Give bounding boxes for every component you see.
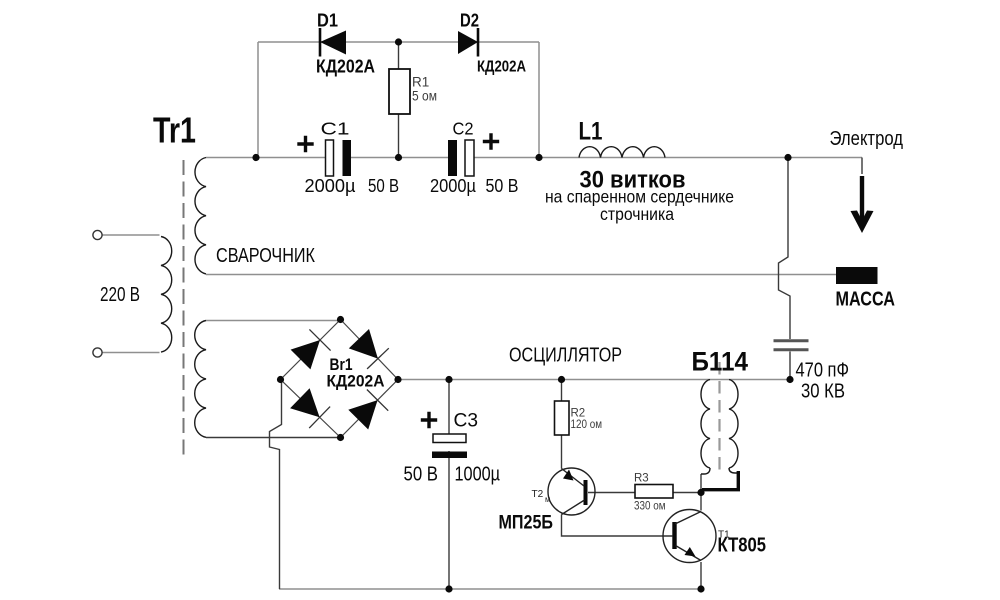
- svg-text:Электрод: Электрод: [830, 128, 904, 150]
- svg-text:C1: C1: [321, 119, 350, 139]
- svg-text:Т2: Т2: [532, 489, 544, 500]
- svg-text:50 В: 50 В: [368, 175, 399, 196]
- svg-text:R2: R2: [571, 408, 586, 420]
- svg-text:МАССА: МАССА: [836, 289, 896, 311]
- svg-text:C3: C3: [454, 410, 479, 432]
- svg-text:R3: R3: [634, 473, 649, 485]
- svg-text:D2: D2: [460, 10, 479, 31]
- svg-text:50 В: 50 В: [404, 464, 439, 486]
- svg-text:1000µ: 1000µ: [455, 464, 501, 486]
- svg-text:2000µ: 2000µ: [305, 175, 356, 196]
- svg-text:Б114: Б114: [692, 347, 749, 377]
- svg-text:СВАРОЧНИК: СВАРОЧНИК: [216, 244, 315, 267]
- svg-text:м: м: [545, 495, 551, 504]
- svg-text:КД202А: КД202А: [477, 59, 526, 76]
- svg-text:КД202А: КД202А: [316, 57, 375, 77]
- svg-text:ОСЦИЛЛЯТОР: ОСЦИЛЛЯТОР: [509, 345, 622, 367]
- svg-text:5 ом: 5 ом: [412, 89, 437, 104]
- svg-text:30 КВ: 30 КВ: [801, 381, 845, 403]
- svg-text:2000µ: 2000µ: [430, 175, 476, 196]
- svg-text:строчника: строчника: [600, 204, 674, 224]
- svg-text:КТ805: КТ805: [718, 535, 767, 557]
- svg-text:50 В: 50 В: [486, 175, 519, 196]
- svg-text:C2: C2: [453, 119, 474, 139]
- svg-text:D1: D1: [317, 10, 338, 31]
- svg-text:120 ом: 120 ом: [571, 419, 603, 431]
- svg-text:R1: R1: [412, 75, 429, 90]
- svg-text:МП25Б: МП25Б: [499, 512, 554, 534]
- svg-text:220 В: 220 В: [100, 284, 140, 306]
- svg-text:КД202А: КД202А: [327, 372, 385, 391]
- svg-text:Tr1: Tr1: [153, 110, 196, 151]
- svg-text:470 пФ: 470 пФ: [796, 360, 850, 382]
- svg-text:L1: L1: [579, 118, 603, 146]
- svg-text:330 ом: 330 ом: [634, 501, 666, 513]
